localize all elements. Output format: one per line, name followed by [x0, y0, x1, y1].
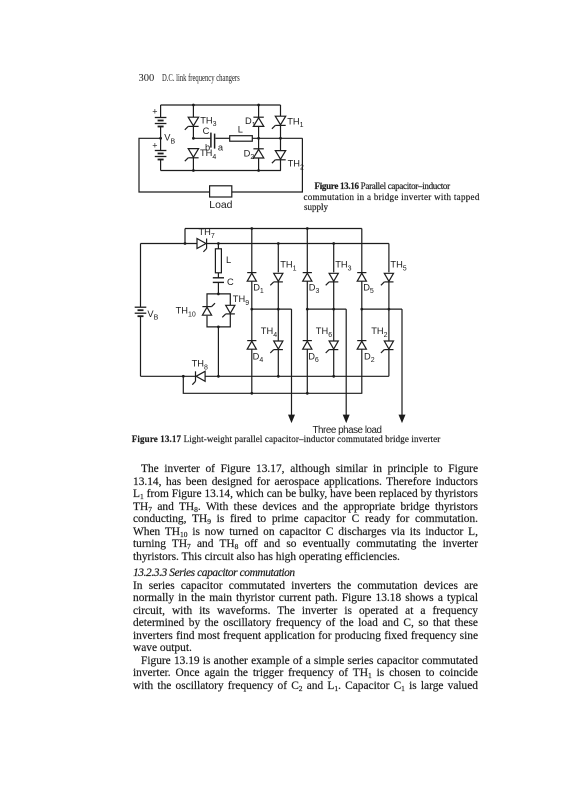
- thyristor TH1: [272, 116, 286, 129]
- svg-text:a: a: [218, 143, 224, 153]
- svg-text:D1: D1: [253, 282, 264, 295]
- label D5: [363, 282, 374, 295]
- thyristor TH5: [381, 273, 394, 285]
- wire TH5 anode: [388, 244, 390, 273]
- inductor L1: [230, 136, 253, 142]
- svg-text:TH4: TH4: [200, 148, 216, 161]
- wire D4 cathode: [251, 309, 253, 340]
- label TH10: [176, 306, 196, 319]
- wire TH1 cathode: [277, 282, 279, 309]
- label D4: [253, 351, 264, 364]
- svg-text:TH8: TH8: [192, 359, 208, 372]
- wire D6 cathode: [306, 309, 308, 340]
- wire D1 anode: [258, 126, 260, 138]
- label b: [205, 142, 210, 152]
- label Load: [209, 200, 232, 211]
- thyristor TH2: [272, 151, 286, 164]
- thyristor TH4: [185, 149, 199, 162]
- wire D5 anode: [361, 281, 363, 309]
- svg-text:TH4: TH4: [261, 326, 277, 339]
- wire TH2 cathode: [280, 160, 282, 171]
- wire TH9-TH10 box bottom: [207, 315, 230, 329]
- wire top rail (diode supply rail): [185, 229, 362, 244]
- wire TH5 cathode: [388, 282, 390, 309]
- wire TH3 anode: [192, 104, 195, 118]
- label a: [218, 143, 224, 153]
- arrow phase 2: [344, 415, 349, 421]
- wire TH3 cathode: [333, 282, 335, 309]
- label D6: [308, 351, 319, 364]
- wire TH4 cathode: [277, 350, 279, 377]
- wire TH6 cathode: [333, 350, 335, 377]
- wire node to capacitor: [193, 137, 210, 139]
- wire D1 cathode: [250, 227, 253, 272]
- arrow phase 1: [289, 415, 294, 421]
- svg-text:TH6: TH6: [316, 326, 332, 339]
- node VB centre tap: [159, 137, 162, 140]
- wire bottom rail: [161, 170, 281, 172]
- label TH3: [200, 115, 216, 128]
- thyristor TH8: [192, 371, 205, 384]
- wire phase node 1: [250, 308, 291, 311]
- wire TH2 anode: [388, 309, 390, 341]
- wire D2 cathode: [361, 309, 363, 340]
- wire TH2 anode: [280, 138, 282, 150]
- arrow phase 3: [399, 415, 404, 421]
- diode D1: [247, 273, 256, 282]
- thyristor TH4: [270, 341, 283, 353]
- wire TH7 cathode rail: [207, 242, 389, 245]
- label TH2: [371, 326, 387, 339]
- wire D3 cathode: [306, 227, 309, 272]
- label Three phase load: [313, 425, 382, 436]
- svg-text:TH2: TH2: [288, 159, 304, 172]
- wire diode bottom rail: [183, 376, 362, 394]
- svg-text:D1: D1: [245, 116, 256, 129]
- wire mid rail: [252, 137, 302, 140]
- diode D5: [357, 273, 366, 282]
- wire TH1 cathode: [280, 125, 282, 138]
- wire top rail: [161, 104, 281, 106]
- svg-text:D2: D2: [364, 351, 375, 364]
- wire D1 cathode: [257, 104, 260, 118]
- label D1: [245, 116, 256, 129]
- wire TH2 cathode: [388, 350, 390, 377]
- wire phase output 1: [291, 309, 293, 415]
- svg-text:D4: D4: [253, 351, 264, 364]
- wire L top: [217, 244, 219, 249]
- svg-text:VB: VB: [164, 133, 175, 146]
- label + upper: [152, 107, 157, 117]
- diode D2: [357, 341, 366, 350]
- wire D2 anode: [257, 158, 260, 172]
- svg-text:+: +: [152, 107, 157, 117]
- wire D6 anode: [306, 349, 308, 393]
- wire load to bridge output: [232, 138, 303, 192]
- label TH2: [288, 159, 304, 172]
- capacitor C: [213, 278, 224, 283]
- label TH3: [335, 260, 351, 273]
- diode D4: [247, 341, 256, 350]
- wire L to C: [217, 273, 219, 278]
- wire phase output 3: [401, 309, 403, 415]
- label L: [226, 255, 231, 265]
- thyristor TH2: [381, 341, 394, 353]
- label D3: [309, 282, 320, 295]
- load: [210, 186, 232, 197]
- wire centre tap to load: [139, 138, 210, 192]
- svg-text:TH1: TH1: [280, 260, 296, 273]
- svg-text:L: L: [238, 124, 243, 134]
- svg-text:Load: Load: [209, 200, 232, 211]
- svg-text:L: L: [226, 255, 231, 265]
- svg-text:+: +: [152, 141, 157, 151]
- battery B2 (lower half of VB): [155, 138, 167, 170]
- label D2: [364, 351, 375, 364]
- svg-text:C: C: [227, 277, 234, 287]
- wire D2 cathode: [258, 138, 260, 149]
- wire D5 cathode: [361, 229, 363, 273]
- diode D6: [303, 341, 312, 350]
- caption figure 13.16: [315, 181, 450, 191]
- caption figure 13.17: [132, 434, 441, 444]
- wire phase output 2: [345, 309, 347, 415]
- wire D4 anode: [251, 349, 253, 393]
- wire TH9-TH10 box top: [207, 293, 230, 307]
- wire pair to bottom rail: [217, 327, 219, 376]
- label TH6: [316, 326, 332, 339]
- svg-text:C: C: [203, 126, 210, 136]
- body text: [133, 463, 478, 476]
- thyristor TH7: [197, 239, 207, 252]
- wire capacitor to L: [216, 137, 230, 139]
- label TH1: [280, 260, 296, 273]
- label C: [227, 277, 234, 287]
- label D2: [244, 148, 255, 161]
- thyristor TH9: [222, 305, 235, 317]
- thyristor TH6: [326, 341, 339, 353]
- wire TH3 to node a-b: [192, 126, 195, 139]
- wire phase node 2: [306, 308, 346, 311]
- label TH5: [390, 260, 406, 273]
- thyristor TH3: [326, 273, 339, 285]
- wire D3 anode: [306, 281, 308, 309]
- wire battery - to TH8: [141, 375, 196, 378]
- svg-text:TH5: TH5: [390, 260, 406, 273]
- wire battery -: [140, 316, 142, 376]
- page header: [139, 73, 285, 85]
- label TH4: [261, 326, 277, 339]
- diode D1: [253, 117, 263, 126]
- wire TH1 anode: [280, 105, 282, 116]
- thyristor TH10: [202, 303, 215, 315]
- wire TH4 anode: [277, 309, 279, 341]
- diode D3: [303, 273, 312, 282]
- label VB: [147, 309, 158, 322]
- label TH9: [233, 294, 249, 307]
- wire TH1 anode: [277, 244, 279, 273]
- wire D1 anode: [251, 281, 253, 309]
- thyristor TH3: [185, 117, 199, 130]
- wire phase node 3: [360, 308, 402, 311]
- svg-text:D6: D6: [308, 351, 319, 364]
- label L: [238, 124, 243, 134]
- label VB: [164, 133, 175, 146]
- wire C to TH9-TH10 pair: [217, 282, 219, 294]
- svg-text:TH1: TH1: [287, 116, 303, 129]
- diode D2: [253, 149, 263, 158]
- wire battery + to TH7: [141, 242, 198, 245]
- battery VB: [135, 307, 147, 316]
- wire battery +: [140, 244, 142, 308]
- svg-text:VB: VB: [147, 309, 158, 322]
- svg-text:D2: D2: [244, 148, 255, 161]
- wire TH4 cathode: [192, 158, 195, 172]
- label D1: [253, 282, 264, 295]
- wire TH8 anode rail: [205, 375, 389, 378]
- wire TH3 anode: [333, 244, 335, 273]
- label TH8: [192, 359, 208, 372]
- svg-text:TH10: TH10: [176, 306, 196, 319]
- svg-text:D3: D3: [309, 282, 320, 295]
- wire TH6 anode: [333, 309, 335, 341]
- svg-text:D5: D5: [363, 282, 374, 295]
- svg-text:TH3: TH3: [335, 260, 351, 273]
- label C: [203, 126, 210, 136]
- label TH7: [199, 227, 215, 240]
- label TH1: [287, 116, 303, 129]
- inductor L: [215, 249, 221, 273]
- capacitor C: [211, 133, 215, 149]
- label + lower: [152, 141, 157, 151]
- thyristor TH1: [270, 273, 283, 285]
- label TH4: [200, 148, 216, 161]
- svg-text:TH2: TH2: [371, 326, 387, 339]
- battery B1 (upper half of VB): [155, 105, 167, 138]
- wire D2 anode: [361, 349, 363, 393]
